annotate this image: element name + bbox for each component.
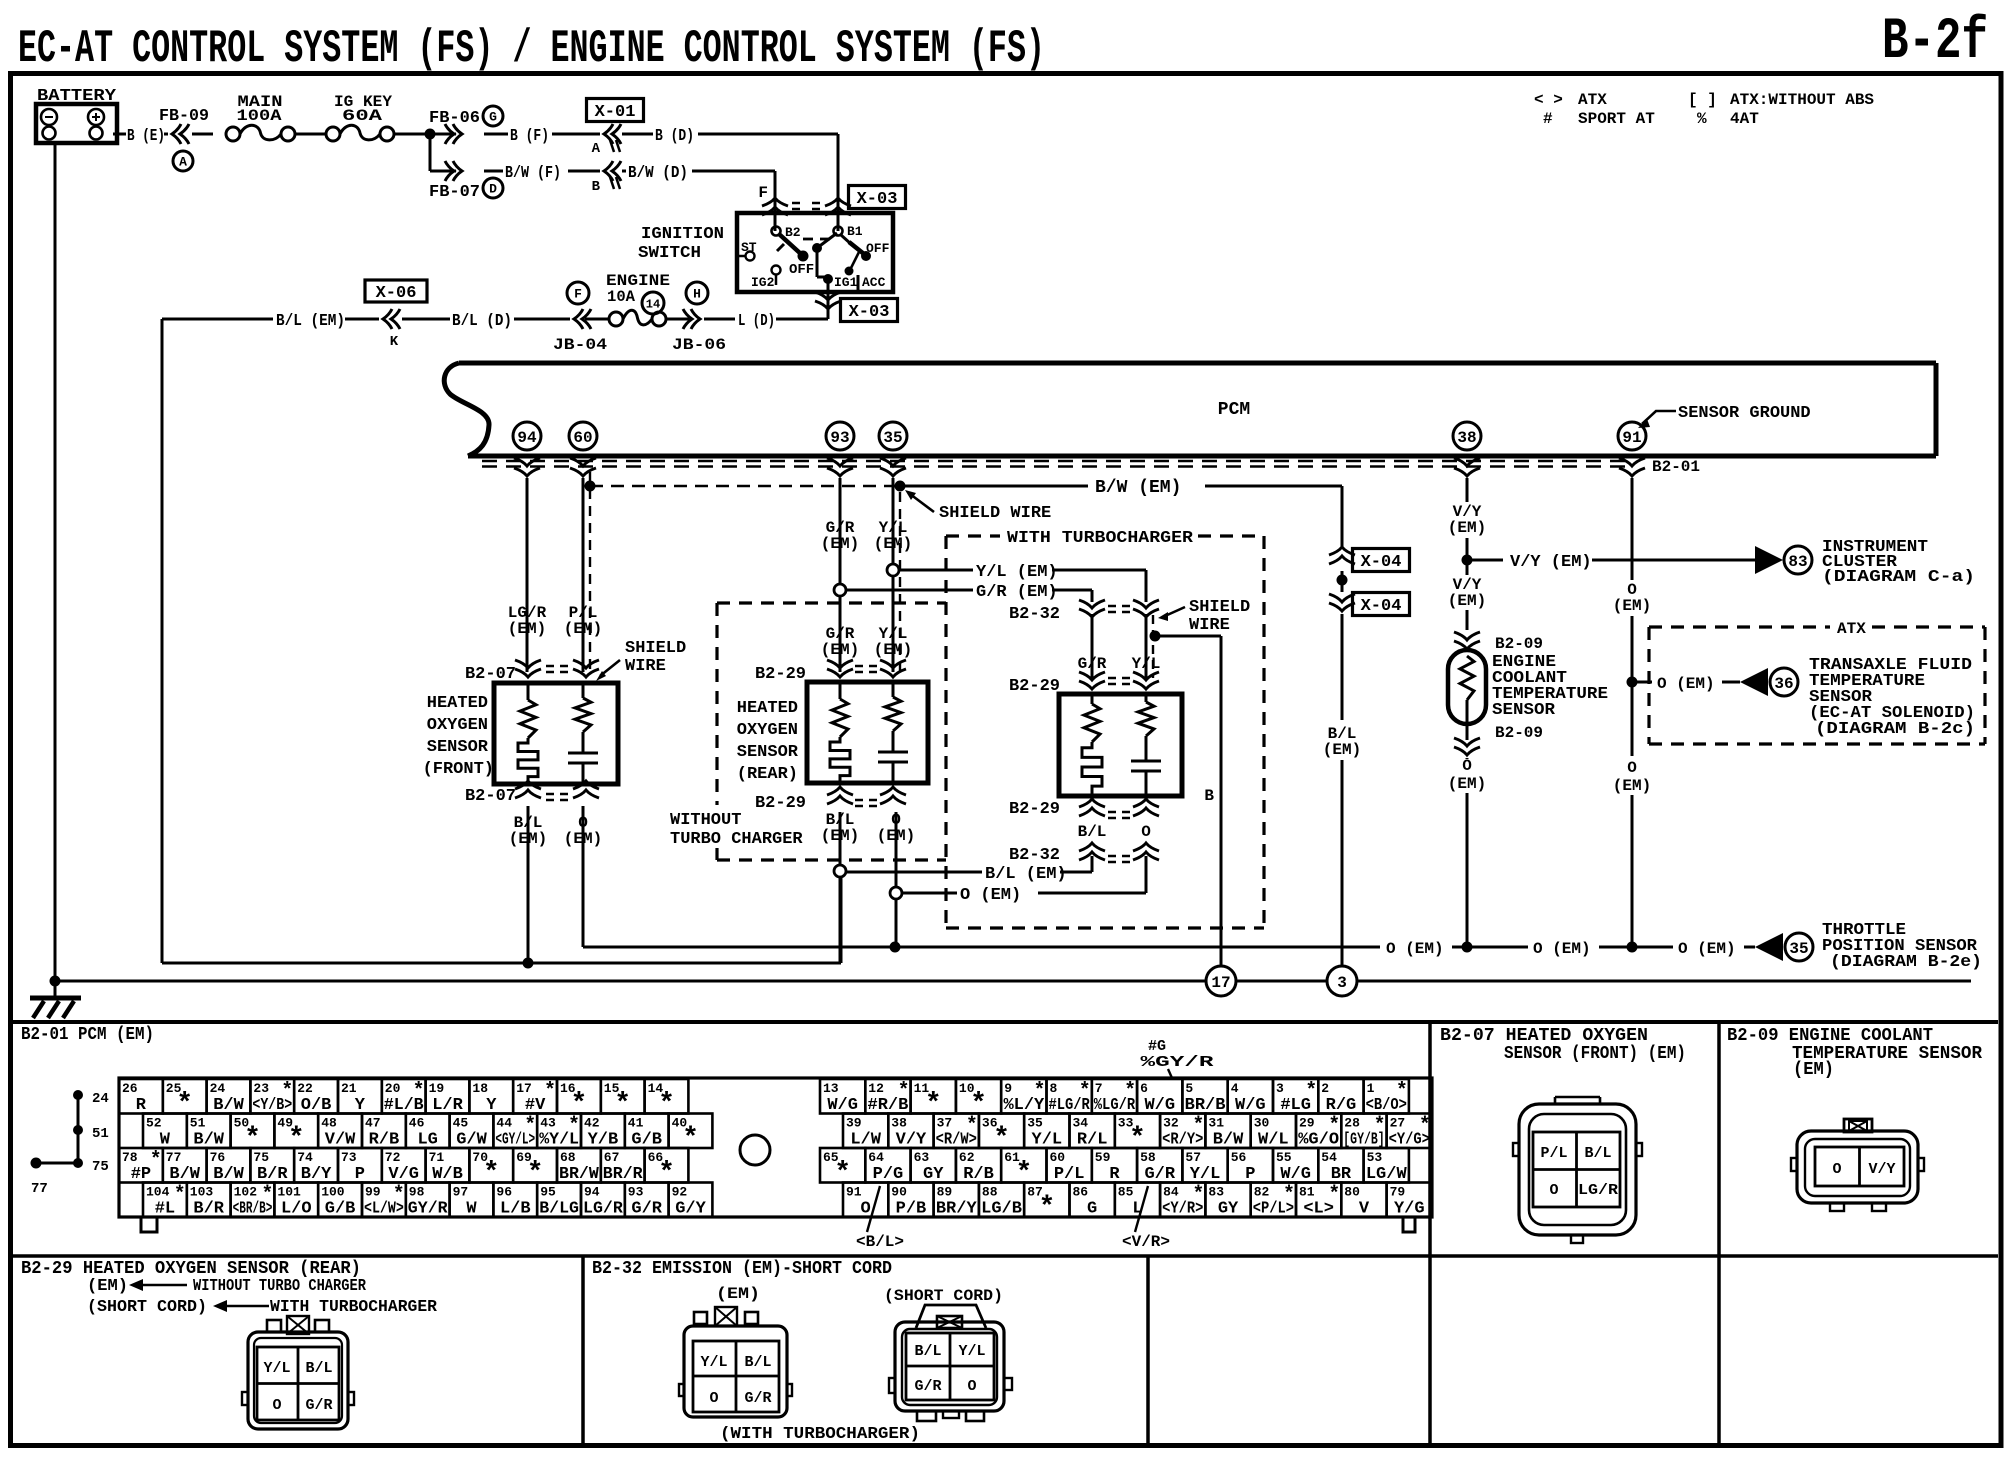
svg-text:B: B [592,179,601,195]
svg-text:57: 57 [1185,1150,1201,1165]
svg-text:27: 27 [1390,1116,1406,1131]
svg-text:Y/L: Y/L [1032,1131,1063,1150]
svg-text:IGNITION: IGNITION [641,225,724,244]
svg-text:63: 63 [914,1150,930,1165]
svg-text:L/O: L/O [281,1200,312,1219]
svg-text:K: K [390,334,399,350]
svg-text:75: 75 [253,1150,269,1165]
svg-text:#R/B: #R/B [868,1096,909,1115]
without turbo charger region (dashed) [670,603,946,860]
svg-text:38: 38 [891,1116,907,1131]
svg-text:31: 31 [1208,1116,1224,1131]
svg-text:IG2: IG2 [751,275,775,290]
svg-text:G/W: G/W [456,1131,487,1150]
connector B2-07 lower [465,781,599,806]
wire B(D) vertical to ignition switch B1 [837,134,840,231]
svg-text:B/Y: B/Y [301,1165,332,1184]
connector B2-29 lower (short cord) [1009,799,1159,819]
svg-text:G: G [489,110,497,125]
svg-text:Y: Y [486,1096,497,1115]
connector B2-29 upper (middle) [755,660,906,684]
svg-text:B/L (EM): B/L (EM) [276,312,345,331]
svg-text:10A: 10A [607,288,635,306]
svg-text:Y/L: Y/L [958,1343,985,1360]
svg-text:SHIELD WIRE: SHIELD WIRE [939,504,1051,523]
svg-text:B2: B2 [785,225,801,240]
connector JB-04 (F) [514,309,607,354]
svg-text:WITHOUT TURBO CHARGER: WITHOUT TURBO CHARGER [193,1277,367,1296]
svg-text:W/G: W/G [1235,1096,1266,1115]
connector X-06 pin K [365,280,427,350]
svg-text:<B/L>: <B/L> [856,1233,904,1251]
svg-text:TURBO CHARGER: TURBO CHARGER [670,830,803,849]
annotation #G %GY/R to pin 6 [1141,1038,1214,1078]
svg-text:BR/B: BR/B [1185,1096,1226,1115]
wire B/W(EM)-B/L(EM) vertical through X-04 [1341,486,1344,967]
svg-text:93: 93 [628,1185,644,1200]
wire Y/L(EM) branch to short cord [887,563,1146,602]
svg-text:L/W: L/W [850,1131,881,1150]
svg-text:22: 22 [297,1081,313,1096]
svg-text:26: 26 [122,1081,138,1096]
svg-text:ACC: ACC [862,275,886,290]
label shield wire (front) [596,639,686,681]
svg-text:G/R (EM): G/R (EM) [976,583,1058,602]
connector B2-32 upper (short cord) [1009,600,1159,624]
svg-text:#LG/R: #LG/R [1049,1096,1091,1115]
wire G/R(EM) branch to short cord [834,583,1092,602]
svg-text:O (EM): O (EM) [1678,940,1736,958]
svg-text:42: 42 [584,1116,600,1131]
svg-text:28: 28 [1344,1116,1360,1131]
svg-text:P/L: P/L [1054,1165,1085,1184]
svg-text:(EM): (EM) [1793,1060,1834,1080]
connector B2-09 upper [1454,632,1543,653]
svg-text:76: 76 [210,1150,226,1165]
wire B/W(F) [484,164,600,183]
svg-text:48: 48 [321,1116,337,1131]
svg-text:<P/L>: <P/L> [1253,1200,1294,1219]
svg-text:(SHORT CORD): (SHORT CORD) [884,1287,1003,1305]
svg-text:JB-06: JB-06 [672,336,726,354]
svg-text:(FRONT): (FRONT) [423,760,494,779]
svg-text:%L/Y: %L/Y [1003,1096,1045,1115]
svg-text:67: 67 [604,1150,620,1165]
connector X-04 upper [1329,547,1410,572]
svg-text:WITH TURBOCHARGER: WITH TURBOCHARGER [270,1298,438,1317]
svg-text:51: 51 [92,1126,109,1142]
annotation <V/R> to pin 58 [1122,1186,1170,1251]
svg-text:1: 1 [1367,1081,1375,1096]
svg-text:(EM): (EM) [821,641,859,659]
label SENSOR GROUND [1638,404,1811,428]
ground bus through pins 17 and 3 [50,976,1972,987]
svg-text:WIRE: WIRE [625,657,666,676]
heated oxygen sensor (front) [423,683,618,784]
connector housing B2-09 [1791,1119,1924,1211]
wire B/W(D) vertical to ignition switch B2 [758,171,775,231]
svg-text:WITHOUT: WITHOUT [670,811,741,830]
wire B shield drain to pin 17 [1150,631,1222,967]
svg-text:%LG/R: %LG/R [1094,1096,1136,1115]
wire LG/R(EM) pin 94 to front sensor [508,478,547,672]
svg-text:G/R: G/R [744,1390,771,1407]
ground [30,981,81,1018]
pin 17 [1206,966,1236,996]
svg-text:H: H [693,287,701,302]
svg-text:SPORT AT: SPORT AT [1578,110,1655,128]
svg-text:X-04: X-04 [1361,553,1402,572]
svg-text:P: P [355,1165,365,1184]
svg-text:*: * [174,1184,186,1207]
wire O(EM) from ECT sensor [1448,724,1486,953]
connector B2-29 upper (short cord) [1009,672,1159,696]
svg-text:90: 90 [891,1185,907,1200]
svg-text:#P: #P [131,1165,151,1184]
svg-text:G/R: G/R [305,1397,332,1414]
svg-text:37: 37 [937,1116,953,1131]
svg-text:OXYGEN: OXYGEN [737,721,798,740]
wire B(E) battery positive feed [113,127,168,146]
svg-text:#L/B: #L/B [384,1096,424,1115]
svg-text:A: A [592,141,601,157]
svg-text:B/R: B/R [257,1165,288,1184]
svg-text:64: 64 [868,1150,884,1165]
label with turbocharger [720,1425,920,1444]
svg-text:96: 96 [496,1185,512,1200]
svg-text:36: 36 [1774,675,1793,693]
svg-text:B (D): B (D) [655,127,694,146]
connector B2-29 lower (middle) [755,787,906,813]
svg-text:21: 21 [341,1081,357,1096]
wire B(F) [484,127,600,146]
svg-text:52: 52 [146,1116,162,1131]
svg-text:58: 58 [1140,1150,1156,1165]
battery [36,87,117,143]
pin 93 [826,422,854,450]
svg-text:81: 81 [1299,1185,1315,1200]
svg-text:IG1: IG1 [834,275,858,290]
svg-text:V/Y (EM): V/Y (EM) [1510,553,1592,572]
svg-text:(DIAGRAM B-2e): (DIAGRAM B-2e) [1830,953,1982,972]
wire to junction [395,129,456,140]
svg-text:(EM): (EM) [821,535,859,553]
svg-text:72: 72 [385,1150,401,1165]
svg-text:35: 35 [883,429,902,447]
svg-text:18: 18 [472,1081,488,1096]
connector X-03 upper [762,186,906,216]
svg-text:%GY/R: %GY/R [1141,1054,1214,1071]
wire B/W(EM) shield drain [585,478,1343,498]
page id B-2f [1882,10,1988,75]
connector housing B2-32 (EM) [679,1307,792,1417]
svg-text:<R/Y>: <R/Y> [1162,1131,1203,1150]
shield wire middle sensor (dashed) [899,492,901,672]
svg-text:L/R: L/R [432,1096,463,1115]
ignition switch [638,213,893,292]
svg-text:*: * [544,1080,556,1103]
svg-text:SENSOR GROUND: SENSOR GROUND [1678,404,1811,423]
svg-text:X-03: X-03 [849,303,890,322]
svg-text:(EM): (EM) [1448,775,1486,793]
svg-text:B/W (EM): B/W (EM) [1095,478,1181,498]
label B/L(EM) [1323,725,1361,759]
connector housing B2-07 [1513,1097,1642,1243]
svg-text:GY: GY [923,1165,944,1184]
svg-text:R/L: R/L [1077,1131,1108,1150]
connector B2-07 upper [465,660,599,684]
title: EC-AT CONTROL SYSTEM (FS) / ENGINE CONTROL SYSTEM (FS) [18,23,1045,75]
svg-text:B/L: B/L [914,1343,941,1360]
svg-text:O/B: O/B [301,1096,332,1115]
svg-text:P: P [1245,1165,1255,1184]
svg-text:O: O [1141,823,1151,841]
wire B/L(D) [402,312,512,331]
pin 38 [1453,422,1481,450]
svg-text:LG/R: LG/R [583,1200,624,1219]
svg-text:%Y/L: %Y/L [539,1131,579,1150]
svg-text:3: 3 [1337,974,1347,992]
svg-text:77: 77 [31,1181,48,1197]
svg-text:P/L: P/L [1540,1145,1567,1162]
svg-text:75: 75 [92,1159,109,1175]
svg-text:SHIELD: SHIELD [1189,598,1250,617]
svg-text:83: 83 [1208,1185,1224,1200]
svg-text:<B/O>: <B/O> [1366,1096,1407,1115]
svg-text:B1: B1 [847,224,863,239]
svg-text:GY: GY [1218,1200,1239,1219]
svg-text:B2-29: B2-29 [1009,677,1060,696]
svg-text:Y/L (EM): Y/L (EM) [976,563,1058,582]
svg-text:L (D): L (D) [738,312,775,331]
svg-text:B2-29: B2-29 [755,794,806,813]
svg-text:B2-09 ENGINE COOLANT: B2-09 ENGINE COOLANT [1727,1026,1933,1046]
with turbocharger region (dashed) [946,529,1264,928]
section dividers [13,1022,1998,1446]
wire junction to B/W(F) [430,134,456,171]
svg-text:B2-32: B2-32 [1009,605,1060,624]
connector FB-06 (G) [429,106,503,144]
svg-text:D: D [489,182,497,197]
svg-text:G/R: G/R [1144,1165,1175,1184]
svg-text:O (EM): O (EM) [960,886,1021,905]
wire L(D) [704,312,828,331]
svg-text:(EM): (EM) [874,535,912,553]
svg-text:97: 97 [453,1185,469,1200]
svg-text:39: 39 [846,1116,862,1131]
svg-text:Y: Y [355,1096,366,1115]
svg-text:<L/W>: <L/W> [364,1200,404,1219]
svg-text:P/B: P/B [896,1200,927,1219]
svg-text:B/W (F): B/W (F) [505,164,561,183]
svg-text:G/B: G/B [325,1200,356,1219]
header B2-29 heated oxygen sensor rear [21,1259,438,1317]
svg-text:83: 83 [1788,553,1807,571]
svg-text:(EM): (EM) [564,620,602,638]
svg-text:V: V [1359,1200,1370,1219]
wire O(EM) middle sensor down [877,811,915,947]
svg-text:73: 73 [341,1150,357,1165]
connector X-03 lower [815,292,898,322]
svg-text:(EM): (EM) [87,1277,128,1296]
svg-text:EC-AT CONTROL SYSTEM (FS) / EN: EC-AT CONTROL SYSTEM (FS) / ENGINE CONTR… [18,23,1045,75]
svg-text:30: 30 [1254,1116,1270,1131]
svg-text:62: 62 [959,1150,975,1165]
svg-text:71: 71 [429,1150,445,1165]
svg-text:103: 103 [190,1185,214,1200]
svg-text:54: 54 [1321,1150,1337,1165]
svg-text:[ ]: [ ] [1688,91,1717,109]
svg-text:79: 79 [1390,1185,1406,1200]
svg-text:59: 59 [1095,1150,1111,1165]
svg-text:SENSOR: SENSOR [427,738,489,757]
svg-text:<Y/B>: <Y/B> [252,1096,292,1115]
svg-text:B/L: B/L [1584,1145,1611,1162]
svg-text:60: 60 [573,429,592,447]
svg-text:SENSOR: SENSOR [737,743,799,762]
junction X-04 [1337,575,1348,586]
connector X-01 pin B [592,161,621,195]
svg-text:(EM): (EM) [1323,741,1361,759]
svg-text:R: R [136,1096,147,1115]
svg-text:85: 85 [1118,1185,1134,1200]
svg-text:WITH TURBOCHARGER: WITH TURBOCHARGER [1007,529,1194,548]
svg-text:(EM): (EM) [874,641,912,659]
svg-text:R/B: R/B [369,1131,400,1150]
wire B/L(EM) bus [162,877,841,969]
svg-text:G/Y: G/Y [675,1200,706,1219]
svg-text:68: 68 [560,1150,576,1165]
svg-text:W/L: W/L [1258,1131,1289,1150]
svg-text:13: 13 [823,1081,839,1096]
pin 94 [513,422,541,450]
svg-text:<R/W>: <R/W> [936,1131,977,1150]
wire V/Y(EM) to instrument cluster [1467,553,1755,572]
engine coolant temperature sensor [1448,650,1608,724]
svg-text:20: 20 [385,1081,401,1096]
label shield wire (short cord) [1158,598,1250,635]
svg-text:V/G: V/G [388,1165,419,1184]
connector FB-09 (A) [159,107,213,171]
svg-text:(DIAGRAM C-a): (DIAGRAM C-a) [1822,568,1975,587]
svg-text:SENSOR (FRONT) (EM): SENSOR (FRONT) (EM) [1504,1044,1686,1064]
svg-text:7: 7 [1095,1081,1103,1096]
wire B(D) [622,127,838,146]
svg-text:<V/R>: <V/R> [1122,1233,1170,1251]
svg-text:R/G: R/G [1326,1096,1357,1115]
svg-text:%G/O: %G/O [1298,1131,1339,1150]
svg-text:FB-07: FB-07 [429,183,480,202]
svg-text:43: 43 [540,1116,556,1131]
pin 60 [569,422,597,450]
svg-text:91: 91 [1622,429,1641,447]
svg-text:O (EM): O (EM) [1386,940,1444,958]
svg-text:92: 92 [672,1185,688,1200]
svg-text:78: 78 [122,1150,138,1165]
svg-text:32: 32 [1163,1116,1179,1131]
svg-text:B/W: B/W [169,1165,200,1184]
wire B/L(EM) middle sensor down [821,811,859,963]
svg-text:B (E): B (E) [127,127,165,146]
svg-text:89: 89 [937,1185,953,1200]
svg-text:(EM): (EM) [508,620,546,638]
wire B/L(EM) short cord to junction [846,856,1092,884]
svg-text:B/L (EM): B/L (EM) [985,865,1067,884]
svg-text:77: 77 [166,1150,182,1165]
PCM [444,363,1936,456]
svg-text:B-2f: B-2f [1882,10,1988,75]
connector X-01 pin A [587,99,644,158]
svg-text:V/W: V/W [325,1131,356,1150]
svg-text:GY/R: GY/R [408,1200,449,1219]
svg-text:B/L: B/L [1078,823,1107,841]
svg-text:51: 51 [190,1116,206,1131]
svg-text:38: 38 [1457,429,1476,447]
svg-text:Y/L: Y/L [1190,1165,1221,1184]
svg-text:B2-09: B2-09 [1495,724,1543,742]
svg-text:B/L (D): B/L (D) [452,312,512,331]
svg-text:B/W: B/W [193,1131,224,1150]
pin 91 [1618,422,1646,450]
svg-text:X-06: X-06 [376,284,417,303]
svg-text:ATX: ATX [1578,91,1607,109]
svg-text:74: 74 [297,1150,313,1165]
svg-text:17: 17 [516,1081,532,1096]
svg-text:X-03: X-03 [857,190,898,209]
svg-text:86: 86 [1073,1185,1089,1200]
svg-text:19: 19 [429,1081,445,1096]
labels B/L and O (short cord) [1078,823,1152,841]
svg-text:HEATED: HEATED [427,694,488,713]
wire B/W(D) [622,164,775,183]
svg-text:93: 93 [830,429,849,447]
svg-text:G/R: G/R [631,1200,662,1219]
header B2-09 engine coolant temperature sensor [1727,1026,1982,1080]
svg-text:98: 98 [409,1185,425,1200]
svg-text:B: B [1204,787,1214,805]
svg-text:B2-01 PCM (EM): B2-01 PCM (EM) [21,1025,154,1045]
svg-text:B2-07 HEATED OXYGEN: B2-07 HEATED OXYGEN [1440,1026,1648,1046]
svg-text:W: W [160,1131,171,1150]
svg-text:[GY/B]: [GY/B] [1343,1131,1384,1150]
svg-text:F: F [574,287,582,302]
svg-text:24: 24 [92,1091,109,1107]
svg-text:17: 17 [1211,974,1230,992]
svg-text:B2-29: B2-29 [755,665,806,684]
wire B/L(EM) vertical left trunk [161,319,164,963]
svg-text:B/W (D): B/W (D) [628,164,688,183]
svg-text:A: A [179,155,187,170]
svg-text:Y/G: Y/G [1394,1200,1425,1219]
wire B/L(EM) front sensor down [509,806,547,963]
ATX region (dashed) [1649,620,1985,744]
svg-text:X-04: X-04 [1361,597,1402,616]
labels transaxle fluid temperature sensor [1809,656,1975,739]
connector housing B2-32 (short cord) [889,1305,1012,1421]
svg-text:B/W: B/W [213,1165,244,1184]
svg-text:8: 8 [1050,1081,1058,1096]
svg-text:(DIAGRAM B-2c): (DIAGRAM B-2c) [1815,720,1975,739]
svg-text:#LG: #LG [1280,1096,1311,1115]
svg-text:PCM: PCM [1218,400,1250,420]
svg-text:V/Y: V/Y [896,1131,927,1150]
wire G/R short cord [1078,614,1107,678]
svg-text:O: O [709,1390,718,1407]
svg-text:LG: LG [417,1131,437,1150]
svg-text:B/LG: B/LG [539,1200,579,1219]
svg-text:B (F): B (F) [510,127,549,146]
svg-text:29: 29 [1299,1116,1315,1131]
